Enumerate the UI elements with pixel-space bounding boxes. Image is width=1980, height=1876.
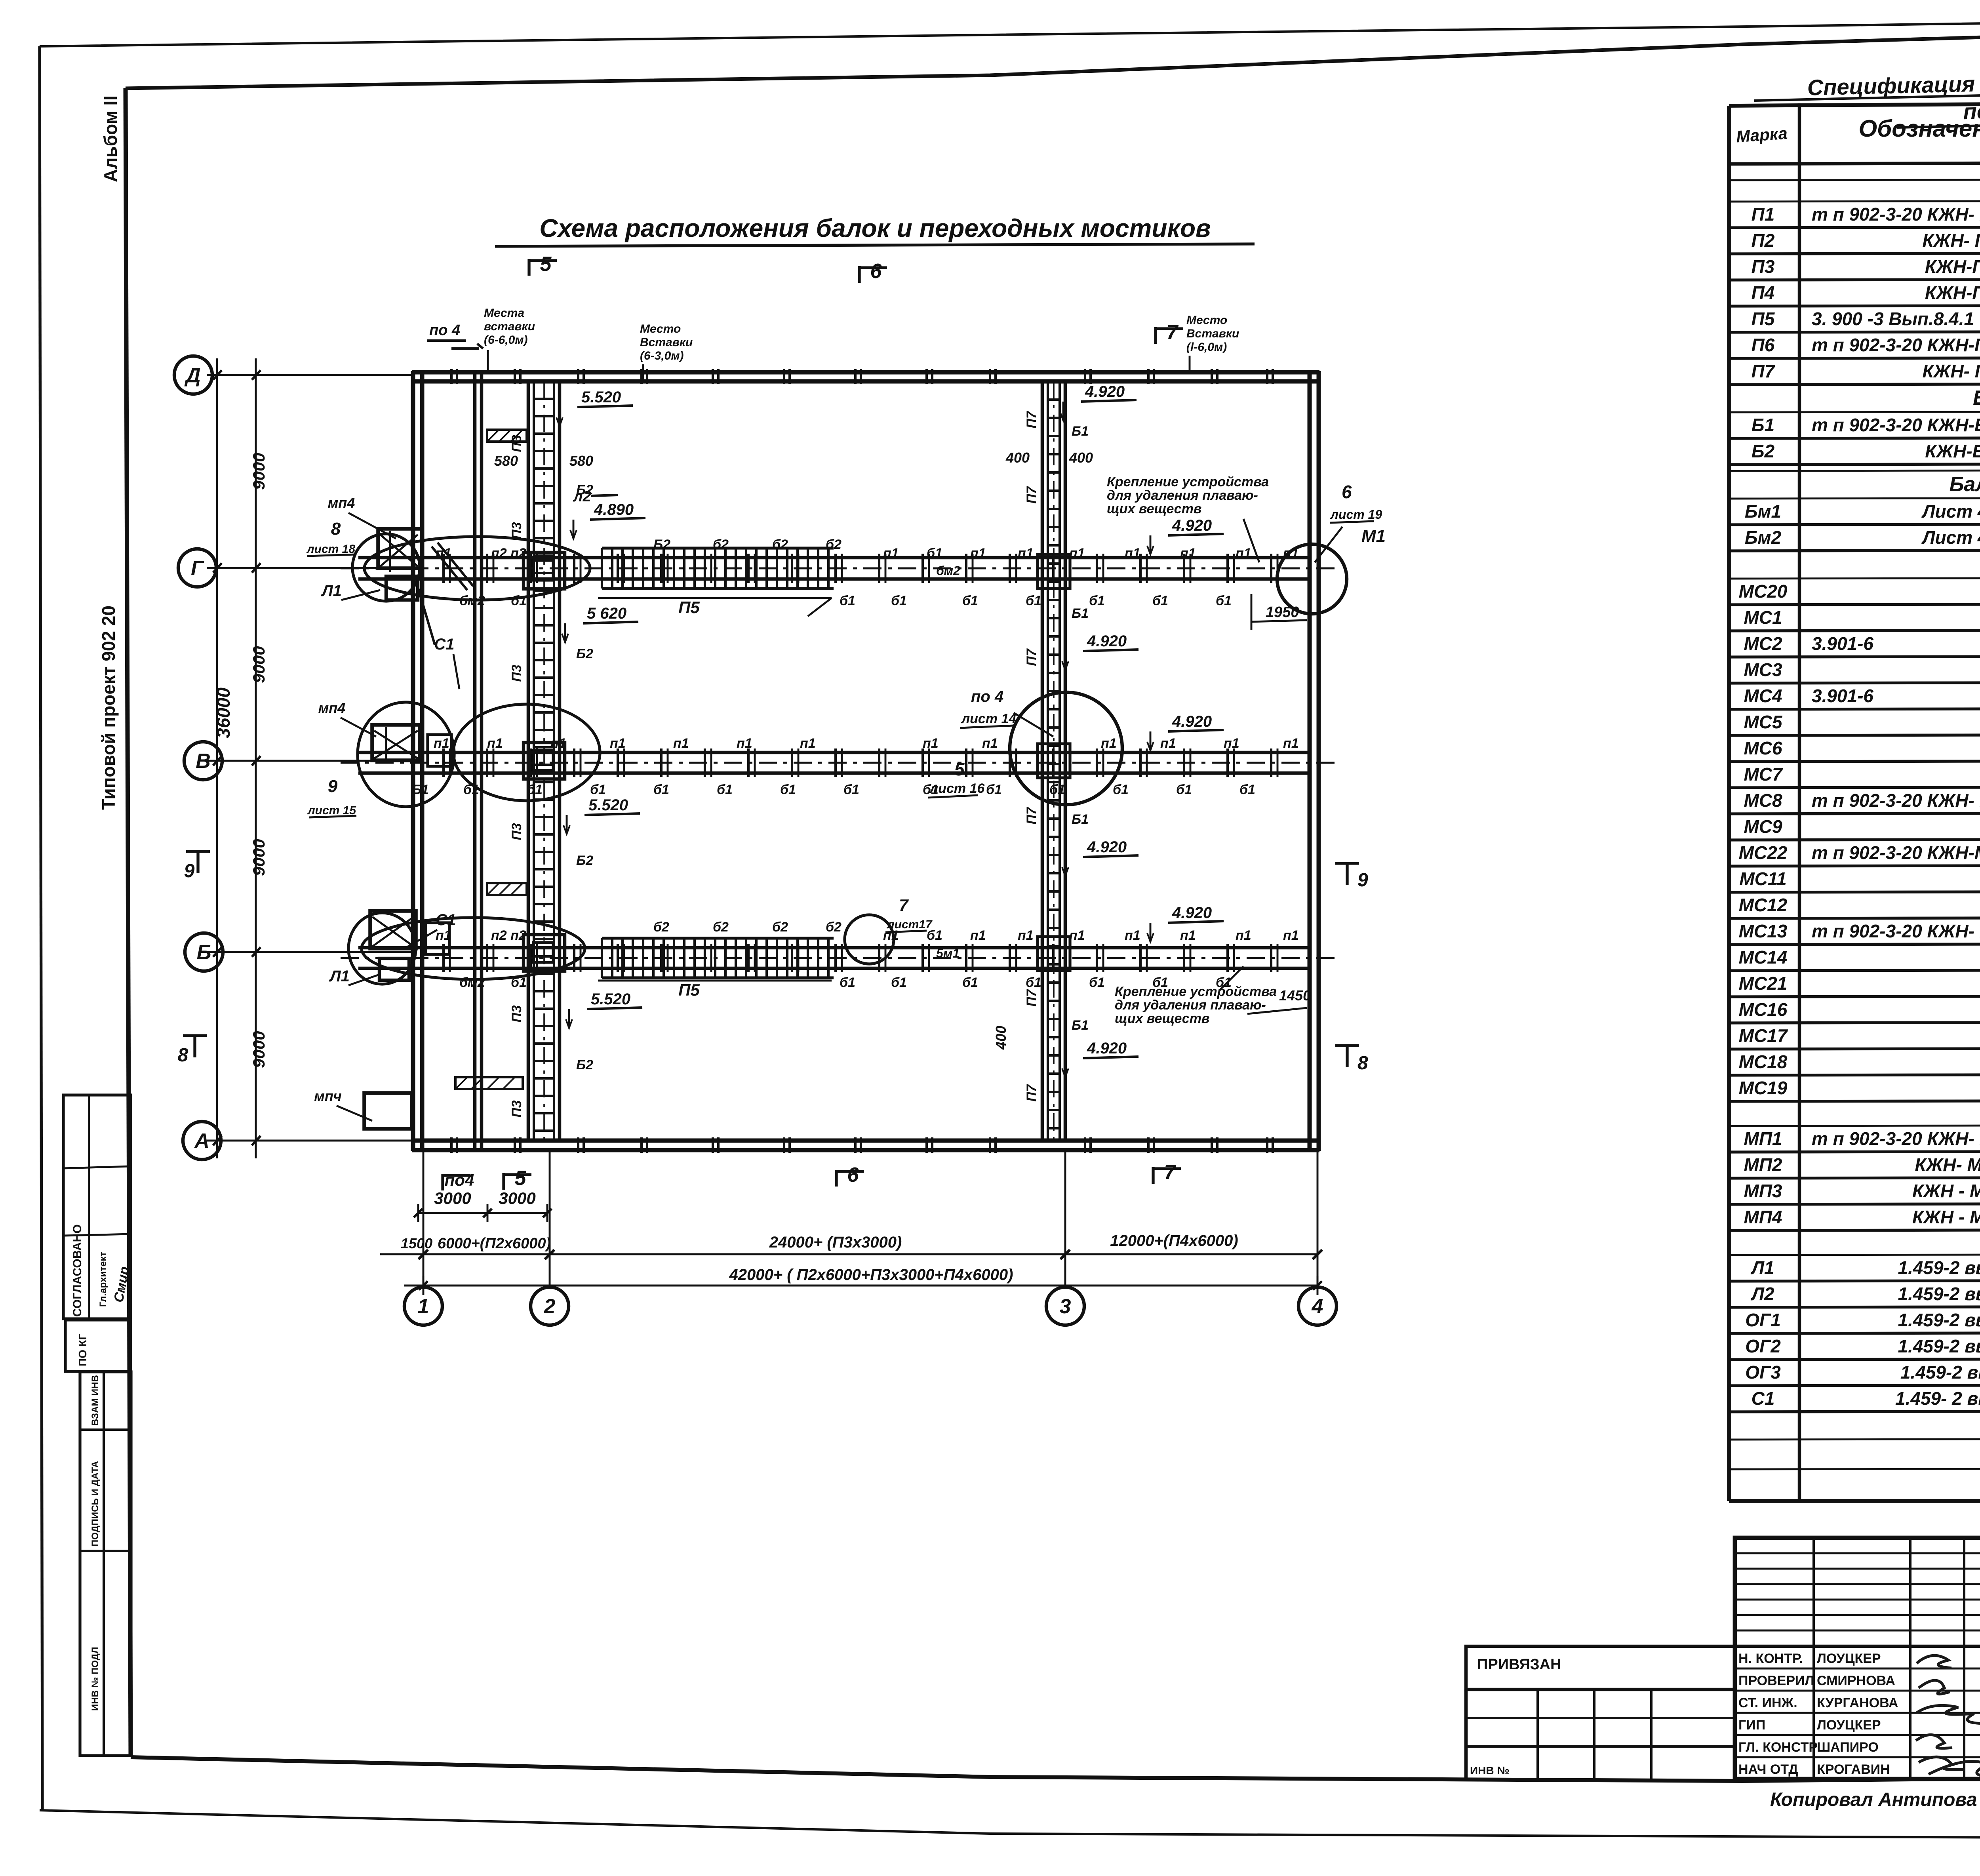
svg-text:б1: б1 [927,928,942,943]
svg-text:п1: п1 [1125,928,1140,943]
svg-text:1.459-2 вып. 2: 1.459-2 вып. 2 [1898,1336,1980,1356]
svg-text:бм2: бм2 [459,593,485,608]
svg-text:2: 2 [544,1295,556,1318]
svg-text:5 620: 5 620 [587,605,626,622]
svg-text:4.890: 4.890 [594,501,634,518]
axis circle А [183,1122,221,1160]
svg-text:6: 6 [847,1164,859,1187]
svg-text:Место: Место [640,322,681,335]
svg-text:МС5: МС5 [1744,712,1783,732]
axis circle В [184,742,222,780]
svg-text:МС22: МС22 [1739,842,1788,863]
svg-text:б2: б2 [713,537,729,552]
svg-text:мп4: мп4 [328,495,355,511]
svg-text:3: 3 [1060,1295,1071,1318]
svg-text:МС17: МС17 [1739,1025,1788,1046]
svg-text:п1: п1 [982,736,998,751]
svg-text:Бм2: Бм2 [1745,527,1782,548]
svg-text:ОГ2: ОГ2 [1745,1336,1781,1356]
svg-text:МС9: МС9 [1744,816,1782,837]
svg-text:580: 580 [569,453,593,469]
svg-text:п1: п1 [1236,928,1251,943]
svg-text:ИНВ №: ИНВ № [1470,1764,1510,1777]
svg-text:б1: б1 [840,975,855,990]
svg-text:П5: П5 [678,981,700,999]
column circle 2 [531,1287,569,1325]
svg-text:4.920: 4.920 [1172,517,1212,534]
svg-text:4.920: 4.920 [1087,632,1127,650]
svg-text:б2: б2 [772,920,788,935]
svg-text:М1: М1 [1361,526,1386,546]
svg-text:б1: б1 [927,546,942,561]
svg-text:по 4: по 4 [971,688,1003,705]
svg-text:п1: п1 [1125,546,1140,561]
bottom dimension lines [418,1212,547,1214]
svg-text:6: 6 [1342,482,1352,502]
svg-text:б1: б1 [923,782,939,797]
svg-text:Б1: Б1 [1072,606,1089,621]
svg-text:9000: 9000 [249,1031,268,1068]
svg-text:п1: п1 [1018,928,1034,943]
svg-text:п1: п1 [1180,546,1196,561]
svg-text:Копировал Антипова: Копировал Антипова [1770,1789,1977,1810]
svg-text:400: 400 [993,1026,1009,1050]
svg-text:С1: С1 [1752,1388,1775,1409]
svg-text:п1: п1 [1101,736,1117,751]
svg-text:п1: п1 [1018,546,1034,561]
svg-text:9000: 9000 [249,839,268,876]
spec table header [1729,162,1980,164]
svg-text:Б2: Б2 [576,646,593,661]
svg-text:МС13: МС13 [1739,921,1788,941]
svg-text:п1: п1 [1283,736,1299,751]
signatures squiggles [1916,1655,1980,1777]
svg-text:П1: П1 [1752,204,1775,225]
svg-text:(6-6,0м): (6-6,0м) [484,333,528,347]
svg-text:б1: б1 [1216,593,1232,608]
svg-text:5м1: 5м1 [936,946,960,960]
left dimension lines [255,358,257,1158]
svg-text:Л1: Л1 [329,968,350,985]
svg-text:3000: 3000 [434,1189,471,1207]
svg-text:т п 902-3-20 КЖН-МС21: т п 902-3-20 КЖН-МС21 [1812,842,1980,863]
svg-text:б2: б2 [772,537,788,552]
svg-text:8: 8 [331,519,341,539]
svg-text:П3: П3 [1752,256,1775,277]
tank ellipses axis Г [352,534,420,601]
svg-text:т п 902-3-20 КЖН- МП1: т п 902-3-20 КЖН- МП1 [1812,1128,1980,1149]
svg-text:б1: б1 [1216,975,1232,990]
svg-text:МС4: МС4 [1744,686,1782,706]
svg-text:4.920: 4.920 [1087,838,1127,856]
svg-text:9000: 9000 [249,453,268,489]
svg-text:24000+ (П3х3000): 24000+ (П3х3000) [769,1234,902,1251]
stair/junction clutter left В [374,727,418,762]
svg-text:ШАПИРО: ШАПИРО [1817,1740,1879,1755]
svg-text:щих веществ: щих веществ [1115,1011,1209,1026]
detail circle M1 [1277,544,1347,614]
svg-text:ЛОУЦКЕР: ЛОУЦКЕР [1817,1718,1881,1733]
svg-text:б1: б1 [1089,593,1105,608]
svg-text:б1: б1 [1089,975,1105,990]
svg-text:КЖН-Б2: КЖН-Б2 [1925,441,1980,461]
svg-text:КРОГАВИН: КРОГАВИН [1817,1762,1890,1777]
svg-text:Б2: Б2 [576,853,593,868]
svg-text:МС8: МС8 [1744,790,1782,811]
svg-text:П3: П3 [509,435,524,452]
svg-text:Бм1: Бм1 [1745,501,1781,522]
svg-text:1.459-2 вып. 1: 1.459-2 вып. 1 [1898,1257,1980,1278]
svg-text:КЖН-П4: КЖН-П4 [1925,282,1980,303]
svg-text:Типовой проект 902 20: Типовой проект 902 20 [98,606,119,810]
svg-text:1.459-2 вып 2: 1.459-2 вып 2 [1900,1362,1980,1383]
svg-text:б1: б1 [780,782,796,797]
svg-text:по 4: по 4 [429,322,460,339]
svg-text:6: 6 [870,260,882,283]
svg-text:Л2: Л2 [1750,1284,1774,1304]
svg-text:3. 900 -3 Вып.8.4.1: 3. 900 -3 Вып.8.4.1 [1812,309,1974,329]
svg-text:п1: п1 [1224,736,1239,751]
svg-text:Балки сборные железобетонные: Балки сборные железобетонные [1973,387,1980,409]
svg-text:3.901-6: 3.901-6 [1812,686,1873,706]
svg-text:п1: п1 [1160,736,1176,751]
svg-text:(l-6,0м): (l-6,0м) [1186,341,1227,354]
svg-text:мпч: мпч [314,1088,342,1104]
svg-text:п1: п1 [883,928,899,943]
bottom wall joints [450,1137,453,1153]
tank ellipses axis Б [348,913,416,984]
svg-text:580: 580 [494,453,518,469]
svg-text:п1: п1 [970,546,986,561]
svg-text:КЖН- П2: КЖН- П2 [1923,230,1980,251]
svg-text:б1: б1 [511,975,527,990]
sidebar small box PO KG [65,1320,131,1371]
svg-text:п2 п2: п2 п2 [491,546,526,561]
svg-text:т п 902-3-20 КЖН-П6: т п 902-3-20 КЖН-П6 [1812,335,1980,355]
svg-text:п1: п1 [800,736,816,751]
svg-text:б1: б1 [1176,782,1192,797]
bottom wall [412,1139,1319,1143]
svg-text:б1: б1 [463,782,479,797]
bridge axis Г [358,556,1310,560]
svg-text:3000: 3000 [499,1189,535,1207]
svg-text:КУРГАНОВА: КУРГАНОВА [1817,1695,1898,1710]
svg-text:1450: 1450 [1279,987,1311,1004]
svg-text:7: 7 [1167,321,1179,344]
svg-text:МП4: МП4 [1744,1207,1782,1227]
svg-text:ПРОВЕРИЛ: ПРОВЕРИЛ [1738,1673,1814,1688]
svg-text:П5: П5 [1752,309,1775,329]
svg-text:МС1: МС1 [1744,607,1782,628]
top wall [412,370,1319,375]
svg-text:лист 19: лист 19 [1330,507,1382,522]
svg-text:Д: Д [184,364,201,387]
svg-text:п1: п1 [436,546,451,561]
svg-text:П3: П3 [509,522,524,539]
svg-text:ГЛ. КОНСТР: ГЛ. КОНСТР [1738,1740,1818,1755]
svg-text:Обозначение: Обозначение [1858,115,1980,142]
svg-text:1: 1 [418,1295,429,1318]
svg-text:П7: П7 [1024,806,1039,824]
svg-text:п1: п1 [1236,546,1251,561]
svg-text:П7: П7 [1024,988,1039,1006]
svg-text:б1: б1 [717,782,733,797]
svg-text:п1: п1 [970,928,986,943]
svg-text:ОГ3: ОГ3 [1745,1362,1781,1383]
svg-text:П5: П5 [678,598,700,617]
svg-text:6000+(П2х6000): 6000+(П2х6000) [438,1235,551,1252]
svg-text:п1: п1 [550,736,566,751]
svg-text:Н. КОНТР.: Н. КОНТР. [1738,1651,1803,1666]
axis circle Г [178,549,216,587]
svg-text:Крепление устройства: Крепление устройства [1107,474,1269,489]
svg-text:б1: б1 [840,593,855,608]
svg-text:П2: П2 [1752,230,1775,251]
platforms outside left wall [378,529,422,568]
svg-text:вставки: вставки [484,320,535,333]
svg-text:МС3: МС3 [1744,659,1782,680]
column circle 3 [1046,1287,1084,1325]
svg-text:п1: п1 [1069,928,1085,943]
svg-text:П3: П3 [509,823,524,840]
svg-text:МП2: МП2 [1744,1154,1782,1175]
svg-text:7: 7 [899,896,909,914]
svg-text:5: 5 [540,253,552,276]
svg-text:4.920: 4.920 [1085,383,1125,400]
svg-text:Лист 46: Лист 46 [1921,501,1980,522]
svg-text:бм2: бм2 [936,564,960,578]
svg-text:4.920: 4.920 [1087,1040,1127,1057]
axis circle Д [174,356,212,394]
svg-text:П4: П4 [1752,282,1775,303]
privyazan box [1466,1646,1735,1689]
svg-text:б1: б1 [1026,593,1041,608]
svg-text:КЖН- П7: КЖН- П7 [1923,361,1980,381]
svg-text:СТ. ИНЖ.: СТ. ИНЖ. [1738,1695,1797,1710]
svg-text:5.520: 5.520 [591,990,630,1008]
svg-text:Балки монолитные железобетонны: Балки монолитные железобетонные [1950,473,1980,496]
svg-text:С1: С1 [436,911,456,929]
svg-text:МС19: МС19 [1739,1078,1788,1098]
svg-text:1.459- 2 вып. 1: 1.459- 2 вып. 1 [1895,1388,1980,1409]
svg-text:П7: П7 [1024,410,1039,428]
svg-text:Вставки: Вставки [1186,327,1239,340]
detail circle 7/sheet17 [845,915,894,964]
svg-text:Б1: Б1 [1072,812,1089,827]
stair/junction clutter left Б [372,917,414,947]
svg-text:т п 902-3-20 КЖН-Б1: т п 902-3-20 КЖН-Б1 [1812,415,1980,435]
svg-text:КЖН - МП3: КЖН - МП3 [1912,1181,1980,1201]
svg-text:9: 9 [328,777,338,796]
svg-text:МП3: МП3 [1744,1181,1782,1201]
svg-text:9000: 9000 [249,646,268,683]
svg-text:ГИП: ГИП [1738,1718,1765,1733]
svg-text:Б2: Б2 [653,537,670,552]
svg-text:п1: п1 [1283,546,1299,561]
spec table outer box [1729,101,1980,106]
svg-text:П3: П3 [509,1005,524,1022]
svg-text:лист 15: лист 15 [307,804,356,817]
svg-text:Л1: Л1 [1750,1257,1774,1278]
svg-text:МП1: МП1 [1744,1128,1782,1149]
svg-text:36000: 36000 [213,688,234,738]
svg-text:МС12: МС12 [1739,895,1788,915]
svg-text:ЛОУЦКЕР: ЛОУЦКЕР [1817,1651,1881,1666]
svg-text:п1: п1 [487,736,503,751]
svg-text:б2: б2 [713,920,729,935]
spec table column lines [1798,103,1801,1501]
svg-text:щих веществ: щих веществ [1107,501,1201,516]
svg-text:п1: п1 [883,546,899,561]
extra intersection boxes on col2 strip [524,552,565,589]
svg-text:б1: б1 [962,593,978,608]
top wall joints [450,369,453,384]
svg-text:ВЗАМ ИНВ: ВЗАМ ИНВ [90,1375,101,1426]
svg-text:Б2: Б2 [576,482,593,497]
svg-text:9: 9 [1357,870,1368,891]
svg-text:П7: П7 [1752,361,1776,381]
section flags top [527,259,530,276]
detail circle 5/sheet16 [1010,692,1122,805]
svg-text:400: 400 [1005,449,1030,466]
svg-text:б1: б1 [891,975,907,990]
svg-text:б1: б1 [1113,782,1129,797]
svg-text:П7: П7 [1024,486,1039,503]
axis circle Б [185,933,223,971]
svg-text:ПРИВЯЗАН: ПРИВЯЗАН [1477,1656,1561,1673]
extra boxes col3 strip [1038,554,1070,589]
svg-text:КЖН - МП4: КЖН - МП4 [1912,1207,1980,1227]
sidebar approval box [63,1095,131,1319]
svg-text:МС7: МС7 [1744,764,1783,785]
svg-text:Вставки: Вставки [640,336,693,349]
svg-text:б2: б2 [653,920,669,935]
svg-text:5: 5 [954,759,965,779]
svg-text:П3: П3 [509,665,524,682]
svg-text:МС16: МС16 [1739,999,1788,1020]
inner wall near axis 1 [473,371,477,1151]
svg-text:Крепление устройства: Крепление устройства [1115,984,1277,999]
svg-text:П7: П7 [1024,1084,1039,1101]
svg-text:1.459-2 вып. 2: 1.459-2 вып. 2 [1898,1310,1980,1330]
svg-text:б1: б1 [511,593,527,608]
svg-text:лист 18: лист 18 [306,543,355,556]
svg-text:3.901-6: 3.901-6 [1812,633,1873,654]
svg-text:МС18: МС18 [1739,1051,1788,1072]
svg-text:Б1: Б1 [1072,424,1089,439]
svg-text:п1: п1 [1283,928,1299,943]
bridge axis В [358,751,1310,754]
svg-text:МС6: МС6 [1744,738,1782,758]
svg-text:лист 14: лист 14 [961,711,1016,726]
right wall [1308,371,1312,1151]
svg-text:5.520: 5.520 [581,389,621,406]
svg-text:б1: б1 [590,782,606,797]
svg-text:п1: п1 [737,736,752,751]
sidebar stamp column [80,1372,131,1756]
svg-text:(6-3,0м): (6-3,0м) [640,349,684,362]
svg-text:б1: б1 [527,782,543,797]
svg-text:КЖН- МП2: КЖН- МП2 [1915,1154,1980,1175]
svg-text:п1: п1 [673,736,689,751]
svg-text:МС21: МС21 [1739,973,1788,994]
svg-text:7: 7 [1164,1161,1177,1184]
svg-text:б1: б1 [843,782,859,797]
stair/junction clutter left Г [380,531,418,572]
svg-text:5: 5 [515,1167,527,1190]
svg-text:ПОДПИСЬ И ДАТА: ПОДПИСЬ И ДАТА [90,1461,101,1547]
svg-text:5.520: 5.520 [588,796,628,814]
svg-text:п1: п1 [434,736,449,751]
svg-text:б1: б1 [1026,975,1041,990]
svg-text:по4: по4 [445,1171,474,1189]
svg-text:б1: б1 [653,782,669,797]
svg-text:Марка: Марка [1736,124,1788,146]
svg-text:МС2: МС2 [1744,633,1782,654]
svg-text:1.459-2 вып. 1: 1.459-2 вып. 1 [1898,1284,1980,1304]
column circle 1 [404,1287,442,1325]
svg-text:4.920: 4.920 [1172,713,1212,730]
svg-text:1950: 1950 [1266,604,1299,621]
svg-text:Лист 46: Лист 46 [1921,527,1980,548]
svg-text:б2: б2 [826,537,841,552]
svg-text:п1: п1 [610,736,626,751]
svg-text:8: 8 [1357,1053,1368,1074]
svg-text:п1: п1 [436,928,451,943]
svg-text:п1: п1 [923,736,939,751]
svg-text:ОГ1: ОГ1 [1745,1310,1781,1330]
svg-text:Б2: Б2 [1752,441,1775,461]
svg-text:для удаления плаваю-: для удаления плаваю- [1107,488,1258,503]
column circle 4 [1298,1287,1336,1325]
svg-text:400: 400 [1069,449,1093,466]
svg-text:ИНВ № ПОДЛ: ИНВ № ПОДЛ [90,1647,101,1711]
svg-text:8: 8 [178,1045,188,1066]
svg-text:МС20: МС20 [1739,581,1788,602]
svg-text:Б2: Б2 [576,1057,593,1072]
svg-text:б1: б1 [1152,975,1168,990]
svg-text:б1: б1 [962,975,978,990]
svg-text:Б1: Б1 [412,782,429,797]
svg-text:Альбом II: Альбом II [100,95,121,182]
svg-text:б1: б1 [891,593,907,608]
svg-text:т п 902-3-20 КЖН- МС8: т п 902-3-20 КЖН- МС8 [1812,790,1980,811]
svg-text:1500: 1500 [401,1235,432,1251]
title block [1735,1538,1980,1779]
svg-text:Г: Г [191,557,204,580]
svg-text:С1: С1 [434,636,454,653]
svg-text:4: 4 [1312,1295,1323,1318]
stair/bridge strip axis 2 [527,381,530,1141]
outer page border [40,16,1980,46]
svg-text:П3: П3 [509,1100,524,1117]
section flags bottom [441,1174,444,1190]
svg-text:12000+(П4х6000): 12000+(П4х6000) [1110,1232,1238,1249]
svg-text:Место: Место [1186,314,1227,327]
svg-text:б1: б1 [1239,782,1255,797]
svg-text:Схема расположения балок и пер: Схема расположения балок и переходных мо… [539,214,1211,242]
svg-text:СОГЛАСОВАНО: СОГЛАСОВАНО [71,1224,84,1317]
spec table rows [1729,179,1980,180]
svg-text:т п 902-3-20 КЖН- МС13: т п 902-3-20 КЖН- МС13 [1812,921,1980,941]
svg-text:МС14: МС14 [1739,947,1788,968]
tank ellipses axis В [358,702,454,807]
svg-text:Места: Места [484,307,524,320]
svg-text:мп4: мп4 [318,700,346,716]
svg-text:9: 9 [184,861,195,882]
left wall [411,371,415,1151]
svg-text:для удаления плаваю-: для удаления плаваю- [1115,998,1266,1013]
